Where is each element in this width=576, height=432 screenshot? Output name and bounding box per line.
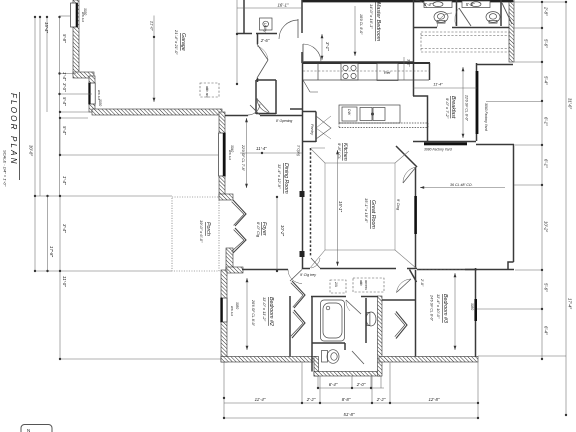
svg-text:5'-6": 5'-6" [544, 283, 549, 292]
svg-text:DW: DW [347, 109, 351, 116]
svg-text:6'-4": 6'-4" [329, 382, 338, 387]
svg-text:Bedroom #3: Bedroom #3 [442, 294, 448, 323]
svg-text:3'-1": 3'-1" [325, 42, 330, 51]
svg-text:access: access [364, 280, 368, 290]
svg-text:2'-6": 2'-6" [260, 38, 270, 43]
svg-text:36 CL #8' CO.: 36 CL #8' CO. [450, 183, 473, 187]
svg-text:Bedroom #2: Bedroom #2 [268, 297, 274, 326]
svg-text:Dining Room: Dining Room [283, 163, 289, 194]
svg-text:5'-4": 5'-4" [62, 126, 67, 135]
svg-text:11'-4": 11'-4" [256, 146, 267, 151]
svg-text:3060 Factory Yard: 3060 Factory Yard [484, 103, 488, 131]
svg-text:10'-2": 10'-2" [280, 225, 285, 236]
svg-text:19'-0" x 6'-0": 19'-0" x 6'-0" [199, 220, 204, 243]
svg-text:2'-8": 2'-8" [544, 6, 549, 16]
svg-text:21'-0": 21'-0" [150, 20, 154, 31]
svg-text:5'-8": 5'-8" [466, 2, 475, 7]
svg-text:Garage: Garage [180, 33, 186, 51]
svg-text:1'-4": 1'-4" [62, 72, 67, 81]
svg-text:8'-8": 8'-8" [342, 397, 351, 402]
svg-text:3080 Factory Yard: 3080 Factory Yard [424, 148, 452, 152]
svg-text:9'-0" x 7'-2": 9'-0" x 7'-2" [445, 98, 450, 119]
svg-text:5'-8": 5'-8" [62, 34, 67, 43]
svg-text:11'-0" x 11'-2": 11'-0" x 11'-2" [262, 297, 267, 322]
svg-text:2'-0": 2'-0" [420, 278, 424, 287]
svg-text:15'-1": 15'-1" [338, 201, 343, 212]
svg-text:30'-8": 30'-8" [29, 145, 34, 156]
svg-text:2'-2": 2'-2" [376, 397, 386, 402]
svg-text:11'-4": 11'-4" [433, 83, 443, 87]
svg-text:1'-4": 1'-4" [62, 176, 67, 185]
svg-text:Master Bedroom: Master Bedroom [375, 2, 381, 42]
svg-text:22'0 SF CL 8'-0": 22'0 SF CL 8'-0" [465, 94, 469, 122]
svg-text:SCALE - 1/4" = 1'-0": SCALE - 1/4" = 1'-0" [3, 150, 8, 187]
svg-text:15'-1" x 19'-6": 15'-1" x 19'-6" [364, 198, 369, 223]
svg-text:N: N [27, 428, 30, 432]
svg-text:16'-1": 16'-1" [278, 3, 289, 8]
svg-text:51'-8": 51'-8" [344, 412, 355, 417]
svg-text:Great Room: Great Room [370, 200, 376, 229]
svg-text:11'-0": 11'-0" [62, 276, 67, 287]
svg-text:15'-4": 15'-4" [44, 22, 49, 33]
svg-text:6'-1": 6'-1" [544, 117, 549, 126]
svg-text:11'-4": 11'-4" [255, 397, 266, 402]
svg-text:12'-8": 12'-8" [429, 397, 440, 402]
svg-text:17'-4": 17'-4" [568, 298, 573, 309]
svg-text:11'-4" x 12'-9": 11'-4" x 12'-9" [277, 164, 282, 189]
svg-text:W/H 4x4: W/H 4x4 [81, 12, 85, 23]
svg-text:8' Opening: 8' Opening [276, 119, 292, 123]
svg-text:2/A: 2/A [334, 281, 338, 287]
svg-text:3'-2": 3'-2" [407, 59, 411, 67]
svg-text:22'0 SF CL 7'-8": 22'0 SF CL 7'-8" [241, 144, 245, 172]
svg-text:9' Clng: 9' Clng [396, 199, 400, 210]
svg-text:20'6 SF CL 8'-0": 20'6 SF CL 8'-0" [251, 299, 255, 327]
svg-text:3'-4": 3'-4" [62, 224, 67, 233]
svg-text:attic acc: attic acc [205, 86, 209, 98]
svg-text:10'0 CL 8'-0": 10'0 CL 8'-0" [359, 14, 363, 35]
svg-text:W/H 4x4: W/H 4x4 [230, 306, 234, 317]
svg-text:8'-0" Clg: 8'-0" Clg [256, 222, 261, 238]
svg-text:21'-4" x 21'-0": 21'-4" x 21'-0" [174, 29, 179, 55]
svg-text:9' Clg trey: 9' Clg trey [300, 273, 316, 277]
svg-text:9'-8" I.CL: 9'-8" I.CL [337, 143, 342, 159]
svg-text:FLOOR PLAN: FLOOR PLAN [9, 93, 18, 166]
svg-text:Utility: Utility [263, 23, 267, 33]
svg-text:11'-4" x 10'-0": 11'-4" x 10'-0" [436, 294, 441, 319]
svg-text:6'-1": 6'-1" [544, 159, 549, 168]
svg-text:3050: 3050 [235, 302, 239, 309]
svg-text:3050: 3050 [470, 303, 474, 310]
svg-text:Porch: Porch [205, 222, 211, 236]
svg-text:2'-0": 2'-0" [356, 382, 366, 387]
svg-text:5'-6": 5'-6" [544, 39, 549, 48]
svg-text:8'-4": 8'-4" [424, 2, 433, 7]
svg-text:Pantry: Pantry [310, 124, 314, 136]
svg-text:14'-0" x 16'-1": 14'-0" x 16'-1" [369, 4, 374, 29]
svg-text:attic: attic [359, 280, 363, 286]
svg-text:Ref: Ref [384, 70, 391, 75]
svg-text:6'-4": 6'-4" [544, 326, 549, 335]
svg-text:24'6 SF CL 8'-0": 24'6 SF CL 8'-0" [430, 294, 434, 322]
svg-text:W/H 4x4: W/H 4x4 [97, 90, 101, 101]
svg-text:W/H 4x4: W/H 4x4 [228, 150, 232, 161]
svg-text:3030: 3030 [98, 99, 102, 106]
svg-text:3'-0": 3'-0" [62, 83, 67, 92]
svg-text:2'-2": 2'-2" [306, 397, 316, 402]
svg-text:5'-4": 5'-4" [544, 76, 549, 85]
svg-text:10'-2": 10'-2" [544, 221, 549, 232]
svg-text:5'-4": 5'-4" [62, 97, 67, 106]
svg-text:3' Opng: 3' Opng [297, 145, 301, 156]
svg-text:31'-6": 31'-6" [568, 98, 573, 109]
svg-text:17'-8": 17'-8" [49, 246, 54, 257]
